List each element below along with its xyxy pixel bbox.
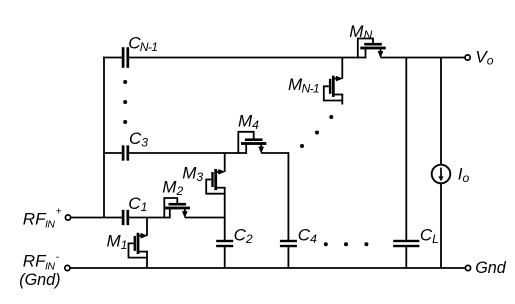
wire current source to ground [440,183,442,268]
node ellipsis diagonal (omitted M stages) [300,115,333,148]
wire M_3 source to C_2 top [224,187,226,240]
node ellipsis horizontal (omitted bottom C stages) [324,242,369,246]
capacitor C_3 [122,145,129,160]
current source I_o [432,165,451,184]
node ellipsis vertical (omitted C stages) [123,80,127,124]
wire left input bus [103,57,105,218]
wire C_L bottom to ground [405,247,407,268]
wire RF rail M_2 to C_2 node [185,217,226,219]
svg-text:CN-1: CN-1 [128,34,157,54]
wire RF rail C_1 to M_2 [129,217,170,219]
svg-text:CL: CL [420,226,439,246]
capacitor C_N-1 [122,47,129,68]
wire middle rail M_4 to C_4 branch corner [261,153,288,240]
capacitor C_1 [122,210,129,225]
svg-text:MN: MN [349,22,372,42]
svg-text:Io: Io [458,165,470,185]
svg-text:M3: M3 [182,164,203,184]
svg-text:C4: C4 [298,226,317,246]
wire M_N-1 source stub [341,94,343,105]
svg-text:(Gnd): (Gnd) [19,271,60,289]
transistor M_N-1 [324,76,343,101]
svg-text:C3: C3 [129,129,148,149]
wire top rail to M_N-1 drain [341,58,343,79]
terminal RF_IN+ [65,215,70,220]
svg-text:C1: C1 [128,194,147,214]
capacitor C_2 [216,240,233,247]
wire C_4 bottom to ground [287,247,289,268]
wire top rail C_N-1 to M_N [129,57,366,59]
wire top rail left of C_N-1 [103,57,122,59]
svg-text:Vo: Vo [475,47,493,67]
terminal Gnd [465,265,470,270]
wire M_1 drain to RF rail [146,218,148,237]
svg-text:M1: M1 [107,232,128,252]
svg-text:C2: C2 [234,226,253,246]
wire V_o rail to C_L top [405,58,407,241]
wire top rail M_N to V_o terminal [381,57,466,59]
transistor M_4 [238,132,266,154]
wire middle rail left of C_3 [103,152,122,154]
transistor M_3 [206,169,225,194]
svg-text:RFIN-: RFIN- [23,251,60,273]
wire ground rail [70,267,466,269]
svg-text:M4: M4 [238,112,259,132]
wire RF rail terminal to C_1 [70,217,122,219]
svg-text:Gnd: Gnd [475,259,507,277]
terminal RF_IN- (Gnd) [65,265,70,270]
transistor M_1 [129,233,148,258]
capacitor C_4 [280,240,297,247]
transistor M_N [358,39,386,59]
svg-text:MN-1: MN-1 [288,75,319,95]
wire M_1 source to ground [146,251,148,268]
capacitor C_L [393,240,419,247]
wire C_2 bottom to ground [224,247,226,268]
svg-text:M2: M2 [162,178,183,198]
transistor M_2 [164,198,190,218]
wire V_o rail to current source [440,58,442,165]
wire C_3 rail to M_3 drain [224,153,226,172]
terminal V_o [465,55,470,60]
wire middle rail C_3 to M_4 [129,152,246,154]
svg-text:RFIN+: RFIN+ [23,206,62,231]
